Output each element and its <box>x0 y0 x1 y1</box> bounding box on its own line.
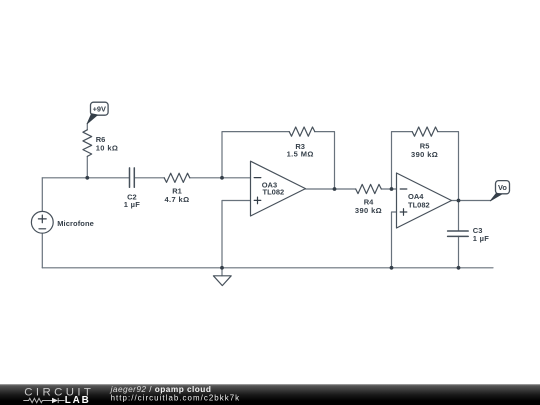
svg-text:390 kΩ: 390 kΩ <box>411 150 438 159</box>
svg-text:LAB: LAB <box>65 395 91 405</box>
svg-text:10 kΩ: 10 kΩ <box>96 143 119 152</box>
svg-text:1.5 MΩ: 1.5 MΩ <box>287 149 314 158</box>
svg-text:Vo: Vo <box>498 183 507 192</box>
svg-text:OA4: OA4 <box>408 192 424 201</box>
svg-text:4.7 kΩ: 4.7 kΩ <box>164 195 189 204</box>
svg-text:jaeger92 / opamp cloud: jaeger92 / opamp cloud <box>110 384 212 394</box>
svg-text:Microfone: Microfone <box>57 219 94 228</box>
svg-text:1 µF: 1 µF <box>124 200 140 209</box>
svg-text:+9V: +9V <box>93 104 106 113</box>
svg-text:TL082: TL082 <box>263 188 285 197</box>
svg-text:TL082: TL082 <box>408 201 430 210</box>
svg-text:390 kΩ: 390 kΩ <box>355 206 382 215</box>
svg-text:1 µF: 1 µF <box>473 234 489 243</box>
svg-text:http://circuitlab.com/c2bkk7k: http://circuitlab.com/c2bkk7k <box>111 394 241 403</box>
svg-text:R1: R1 <box>172 186 182 195</box>
